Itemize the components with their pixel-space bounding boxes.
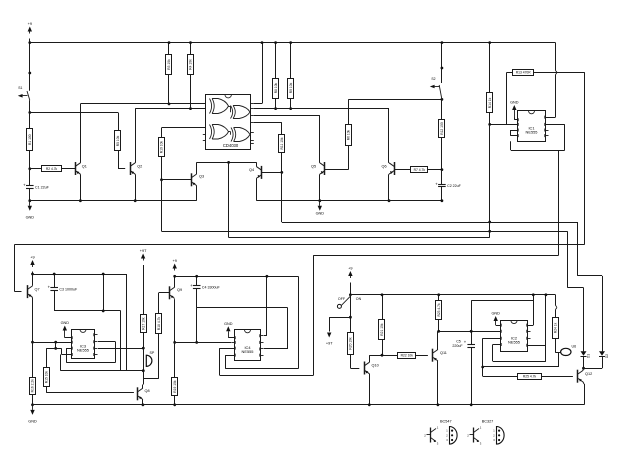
svg-text:R8 10k: R8 10k — [274, 82, 278, 93]
capacitor C5 — [452, 339, 475, 348]
resistor R10 — [159, 138, 165, 157]
svg-text:ON: ON — [356, 297, 362, 301]
wire B1 drop right — [578, 222, 603, 351]
wire bottom ground rail — [33, 404, 585, 406]
wire R24 top stem — [555, 295, 557, 306]
node R3 tap — [168, 103, 171, 106]
wire R5 bottom stem — [118, 151, 125, 169]
wire Q1 emitter down — [80, 174, 82, 201]
svg-text:R7 4.7k: R7 4.7k — [414, 168, 426, 172]
svg-text:R2 4.7k: R2 4.7k — [46, 167, 58, 171]
wire Q3-Q4 top link — [197, 162, 257, 164]
node Q6 base net — [441, 168, 444, 171]
wire left rail to R1 — [29, 113, 31, 130]
svg-text:Q6: Q6 — [382, 165, 387, 169]
node Q7 collector line — [31, 341, 34, 344]
wire R15 link — [46, 348, 71, 367]
wire C5 to rail — [471, 347, 473, 405]
wire Q10 collector up — [369, 355, 397, 362]
bus line B2 — [162, 231, 568, 233]
svg-text:CD4030: CD4030 — [223, 143, 239, 148]
node R19 rail — [173, 403, 176, 406]
wire B2 drop right — [567, 231, 583, 351]
node switch rail — [349, 293, 352, 296]
wire switch to R20 — [350, 295, 352, 333]
node SP top — [142, 347, 145, 350]
wire Q9 base link — [159, 292, 170, 294]
node pullup B top — [289, 41, 292, 44]
wire R13 line left — [507, 72, 513, 74]
wire C5 top stem — [471, 331, 473, 344]
wire IC2 lower link — [483, 353, 559, 367]
wire R4 stems — [190, 43, 192, 109]
wire Q9 emitter to +9 — [174, 275, 176, 287]
node Q5 emitter — [318, 199, 321, 202]
wire Q4 base link — [261, 172, 281, 174]
wire Q2 collector up — [135, 109, 137, 163]
svg-text:R13 470R: R13 470R — [516, 71, 531, 75]
svg-text:NE555: NE555 — [526, 130, 538, 135]
svg-text:R16 2.2k: R16 2.2k — [31, 379, 35, 393]
ground flag IC3 — [61, 321, 70, 338]
resistor R19 — [172, 378, 178, 396]
wire C4 line right — [197, 307, 288, 309]
resistor R11 — [279, 135, 285, 153]
wire supply rail bottom-mid — [175, 276, 298, 278]
svg-text:R15 10k: R15 10k — [45, 371, 49, 384]
svg-text:R9 10k: R9 10k — [289, 82, 293, 93]
svg-text:Q4: Q4 — [249, 168, 254, 172]
node D1 cathode — [582, 367, 585, 370]
wire Q10 emitter down — [369, 374, 371, 405]
resistor R25 — [518, 374, 542, 380]
svg-text:GND: GND — [491, 312, 500, 316]
svg-text:R17 10k: R17 10k — [141, 317, 145, 330]
node R3 top — [168, 41, 171, 44]
wire R14 stem — [489, 43, 491, 93]
wire supply rail corner drop mid — [298, 276, 300, 369]
switch S1 — [18, 86, 30, 100]
wire top supply rail — [30, 42, 556, 44]
svg-text:GND: GND — [316, 212, 325, 216]
svg-text:S1: S1 — [18, 86, 22, 90]
wire R7 to C2 node — [428, 169, 442, 171]
node S1 bottom — [28, 111, 31, 114]
resistor R15 — [44, 368, 50, 387]
wire R15 to Q8 base — [46, 387, 134, 393]
resistor R24 — [553, 318, 559, 339]
wire R10 from IC pin — [162, 128, 207, 138]
transistor Q6 — [382, 162, 395, 175]
wire Q5 emitter down — [319, 174, 321, 201]
node Q1 emitter — [79, 199, 82, 202]
wire Q3 base drop to bus — [161, 180, 163, 232]
svg-text:NE555: NE555 — [242, 349, 254, 354]
svg-text:GND: GND — [26, 216, 35, 220]
legend label BC327 — [482, 420, 494, 424]
wire jog up to S2 line — [348, 99, 350, 108]
resistor R20 — [348, 333, 354, 355]
svg-text:Q11: Q11 — [440, 351, 447, 355]
power flag +9T transmit — [140, 249, 147, 261]
wire R24 to U6 — [556, 338, 561, 353]
resistor R14 — [487, 93, 493, 113]
LED D2 — [599, 351, 609, 358]
wire C5 line — [439, 331, 501, 333]
node Q2 emitter — [134, 199, 137, 202]
wire Q7 gnd stem — [32, 342, 34, 377]
node C3 line tap — [102, 310, 105, 313]
wire IC1 gnd link — [514, 118, 517, 120]
gate 2 XOR — [231, 106, 251, 119]
node Q11 collector net — [437, 330, 440, 333]
node Q9 collector line — [173, 341, 176, 344]
node Q4 base — [280, 171, 283, 174]
node S2 rail — [441, 41, 444, 44]
wire R1 to node — [29, 150, 31, 168]
power flag +9 top-left — [28, 22, 32, 34]
wire supply rail right — [350, 294, 555, 296]
wire node to C1 — [29, 169, 31, 186]
node Q7 supply — [31, 273, 34, 276]
wire IC3 feed line — [33, 342, 72, 344]
IC left pin stubs — [203, 104, 206, 141]
svg-text:R10 10k: R10 10k — [160, 141, 164, 154]
svg-text:C3 1000uF: C3 1000uF — [59, 287, 78, 291]
resistor R12 — [439, 120, 445, 138]
wire R21 stems — [382, 295, 384, 355]
svg-text:R11 10k: R11 10k — [280, 137, 284, 149]
svg-text:+9T: +9T — [140, 249, 147, 253]
legend label BC547 — [440, 420, 452, 424]
resistor R16 — [30, 378, 36, 395]
svg-text:SP: SP — [150, 351, 155, 355]
resistor R7 — [411, 167, 428, 173]
wire Q4 collector up — [256, 162, 258, 166]
svg-text:GND: GND — [224, 322, 233, 326]
wire gate out to R11 — [254, 123, 282, 136]
transistor Q10 — [364, 362, 378, 375]
svg-text:GND: GND — [61, 321, 70, 325]
wire IC4 outer loop — [220, 348, 314, 375]
wire C4 stem down — [196, 308, 198, 343]
wire mid link drop to bus — [228, 162, 230, 237]
wire R2 left stem — [30, 168, 42, 170]
speaker SP — [144, 348, 155, 371]
bus line B5 — [313, 255, 558, 257]
wire C3 bottom stem — [54, 290, 56, 311]
wire D1 bottom — [583, 356, 585, 368]
node SP bottom — [142, 369, 145, 372]
wire hop on R24 stem — [556, 306, 557, 310]
svg-text:R18 4.7k: R18 4.7k — [157, 317, 161, 331]
wire Q8 emitter to rail — [142, 400, 144, 405]
resistor R2 — [42, 166, 62, 172]
node supply drop top — [102, 273, 105, 276]
LED D1 — [581, 351, 591, 358]
wire left supply stem — [29, 39, 31, 91]
node C5 tap — [470, 330, 473, 333]
svg-text:Q5: Q5 — [311, 165, 316, 169]
wire hop over R13 line — [556, 71, 557, 75]
node pullup B bottom — [289, 107, 292, 110]
wire S2 to R12 — [441, 99, 443, 119]
power flag +9 Q9 — [173, 259, 177, 271]
wire SP to Q8 collector — [143, 371, 144, 389]
wire Q11 collector up — [437, 331, 439, 349]
svg-text:Q10: Q10 — [372, 364, 379, 368]
wire R2 to Q1 base — [62, 168, 76, 170]
wire Q1 collector up — [80, 104, 82, 163]
ground flag mid — [316, 201, 325, 215]
wire R17 to SP — [143, 333, 145, 348]
ground flag IC1 — [510, 101, 519, 118]
node +9T tap — [349, 316, 352, 319]
node IC3 feed tap — [54, 341, 57, 344]
svg-text:R19 10k: R19 10k — [173, 380, 177, 393]
capacitor C1 — [23, 183, 49, 190]
power flag +9 Q7 — [30, 256, 34, 268]
wire Q12 emitter down — [583, 382, 585, 405]
svg-text:R12 100: R12 100 — [440, 122, 444, 135]
wire rail corner down — [555, 43, 557, 71]
svg-text:R1 100: R1 100 — [28, 134, 32, 145]
svg-text:R6 10k: R6 10k — [347, 129, 351, 140]
svg-text:D1: D1 — [587, 354, 591, 358]
wire Q6 emitter down — [388, 174, 390, 201]
wire Q2 emitter down — [135, 174, 137, 201]
wire R23 stems — [438, 295, 440, 332]
wire Q6 base right — [395, 169, 412, 171]
transistor Q9 — [170, 286, 183, 299]
svg-text:R24 1k: R24 1k — [554, 322, 558, 333]
wire R25 to Q12 base — [541, 376, 573, 378]
resistor R21 — [379, 320, 385, 340]
wire IC2 inner riser — [545, 295, 547, 361]
wire B4 left drop — [15, 244, 22, 291]
wire base feed line from S1 — [30, 112, 118, 114]
wire R3 stems — [168, 43, 170, 104]
wire R13 right drop to bus — [584, 72, 586, 244]
node R21 top — [381, 293, 384, 296]
resistor R13 — [513, 70, 534, 76]
wire C3 top stem — [54, 274, 56, 288]
node pullup A bottom — [274, 107, 277, 110]
svg-text:+9: +9 — [348, 267, 352, 271]
transistor Q8 — [138, 387, 150, 400]
bus line B4 — [15, 244, 585, 246]
svg-text:R5 10k: R5 10k — [116, 135, 120, 146]
wire C4 line drop — [264, 308, 288, 349]
svg-text:R20 10k: R20 10k — [349, 337, 353, 350]
transistor Q3 — [192, 173, 205, 186]
gate 3 XOR — [210, 125, 229, 140]
wire gate out to Q5 — [254, 115, 320, 163]
ground flag IC2 — [491, 312, 500, 326]
wire gate out to Q6 — [254, 109, 389, 163]
svg-text:+9: +9 — [30, 256, 34, 260]
transistor Q5 — [311, 162, 325, 175]
wire IC3 inner loop — [66, 342, 115, 363]
node pullup A top — [274, 41, 277, 44]
svg-text:D2: D2 — [605, 354, 609, 358]
wire R10 to Q3 base — [161, 156, 163, 180]
node C5 loop join — [470, 330, 473, 333]
wire IC4 gnd link — [228, 337, 234, 339]
node C4 tap — [195, 275, 198, 278]
wire IC3 outer loop — [60, 355, 143, 371]
node VDD rail — [261, 41, 264, 44]
svg-text:OFF: OFF — [338, 297, 346, 301]
svg-text:C2 22uF: C2 22uF — [447, 184, 462, 188]
wire R18 bottom link — [143, 334, 158, 379]
node IC1 bus tap A — [488, 221, 491, 224]
resistor R5 — [115, 131, 121, 151]
transistor Q2 — [130, 162, 142, 175]
svg-text:Q8: Q8 — [145, 389, 150, 393]
wire supply drop mid — [103, 274, 105, 311]
wire IC1 vertical down — [489, 124, 491, 237]
wire VDD drop — [254, 43, 263, 104]
node R4 top — [189, 41, 192, 44]
transistor Q1 — [75, 162, 86, 175]
gate 4 XOR — [231, 128, 250, 142]
transistor Q7 — [28, 285, 40, 298]
wire C5 top loop — [471, 301, 533, 332]
wire R5 top stem — [118, 113, 120, 132]
wire Q4 emitter down — [256, 178, 258, 201]
switch S2 — [430, 77, 442, 99]
node IC1 bus tap B — [488, 230, 491, 233]
node R23 top — [437, 293, 440, 296]
wire C2 to ground rail — [441, 187, 443, 201]
node IC2 outer tap — [481, 366, 484, 369]
node C4 line join — [195, 341, 198, 344]
wire IC2 pin4 link — [527, 295, 533, 326]
wire IC2 outer left — [483, 338, 501, 376]
resistor R1 — [27, 129, 33, 151]
wire R6 top stem — [348, 109, 350, 125]
wire R18 top link — [158, 293, 160, 313]
svg-text:BC327: BC327 — [482, 420, 494, 424]
wire B5 drop to IC4 loop — [313, 255, 315, 375]
IC4 NE555 — [232, 330, 264, 361]
bus line B3 — [229, 237, 490, 239]
wire S1 to node — [29, 100, 31, 112]
wire pullup stems B — [290, 43, 292, 109]
svg-text:BC547: BC547 — [440, 420, 452, 424]
wire R11 to Q4 base node — [281, 152, 283, 172]
wire node to C2 — [441, 170, 443, 185]
resistor R6 — [346, 125, 352, 146]
node R15 link tap — [54, 347, 57, 350]
svg-text:U6: U6 — [572, 345, 577, 349]
svg-text:R3 10k: R3 10k — [167, 59, 171, 70]
node top-rail start — [28, 41, 31, 74]
resistor R8 — [273, 79, 279, 99]
resistor R4 — [188, 55, 194, 75]
svg-text:Q7: Q7 — [35, 288, 40, 292]
wire IC1 loop riser to bus5 — [558, 150, 560, 255]
resistor R18 — [156, 314, 162, 334]
wire IC3 gnd link — [65, 337, 72, 339]
wire supply rail corner drop — [126, 274, 128, 371]
legend transistor BC547 — [424, 426, 439, 446]
wire gate1 input B — [135, 108, 206, 110]
wire IC1 pin link U — [510, 130, 517, 136]
capacitor C2 — [435, 181, 461, 188]
node Q3 base — [160, 178, 163, 181]
svg-text:Q9: Q9 — [177, 288, 182, 292]
wire IC2 gnd link — [496, 325, 501, 327]
wire IC3 pin to SP node — [98, 348, 143, 350]
wire Q9 collector down — [174, 299, 176, 342]
node C2 ground — [441, 199, 444, 202]
gate 1 XOR — [210, 99, 229, 114]
svg-text:GND: GND — [510, 101, 519, 105]
wire R19 to rail — [174, 396, 176, 405]
node S2 top contact — [441, 67, 444, 70]
wire R19 stem — [174, 342, 176, 377]
IC right pin stubs — [250, 104, 253, 144]
wire Q11 emitter down — [437, 361, 439, 405]
node rail left end — [31, 403, 34, 406]
wire R24 stem2 — [555, 309, 557, 317]
power flag +9T sink — [326, 333, 333, 346]
svg-text:R14 1k: R14 1k — [488, 97, 492, 108]
svg-text:Q2: Q2 — [137, 165, 142, 169]
node Q6 emitter — [388, 199, 391, 202]
resistor R9 — [288, 79, 294, 99]
wire ground rail left segment — [30, 200, 197, 202]
wire D2 bottom — [584, 356, 603, 368]
transistor Q11 — [433, 349, 447, 362]
node S2 line end — [441, 98, 444, 101]
wire switch stem — [350, 283, 352, 295]
wire +9T stem — [143, 265, 145, 314]
resistor R3 — [166, 55, 172, 75]
wire supply drop A — [264, 276, 267, 336]
node C5 ground — [470, 403, 473, 406]
wire R6 to Q5 base — [324, 145, 349, 169]
legend package BC327 — [493, 427, 504, 445]
resistor R22 — [398, 353, 416, 359]
node R1 bottom junction — [28, 167, 31, 170]
node Q10 emitter — [368, 403, 371, 406]
node C3 tap — [53, 273, 56, 276]
wire tap drop — [55, 342, 57, 348]
wire Q3 collector down — [196, 185, 198, 200]
transistor Q4 — [249, 166, 262, 179]
node IC1 left — [488, 123, 491, 126]
svg-text:R25 4.7k: R25 4.7k — [523, 374, 537, 378]
svg-text:R22 10k: R22 10k — [401, 353, 414, 357]
svg-text:NE555: NE555 — [77, 348, 89, 353]
wire R25 line — [483, 376, 518, 378]
wire Q3 emitter up — [196, 162, 198, 174]
node IC2 riser rail — [545, 293, 548, 296]
wire IC4 inner loop — [225, 355, 298, 369]
svg-text:R23 4.7k: R23 4.7k — [437, 303, 441, 317]
wire C1 to ground rail — [29, 188, 31, 200]
svg-text:C4 3300uF: C4 3300uF — [202, 286, 221, 290]
svg-text:S2: S2 — [431, 77, 435, 81]
node R4 tap — [189, 107, 192, 110]
node R21 bottom — [381, 354, 384, 357]
wire IC2 pin link 345 — [527, 345, 546, 347]
wire R14 to IC1 — [490, 113, 518, 125]
svg-text:NE555: NE555 — [508, 340, 520, 345]
